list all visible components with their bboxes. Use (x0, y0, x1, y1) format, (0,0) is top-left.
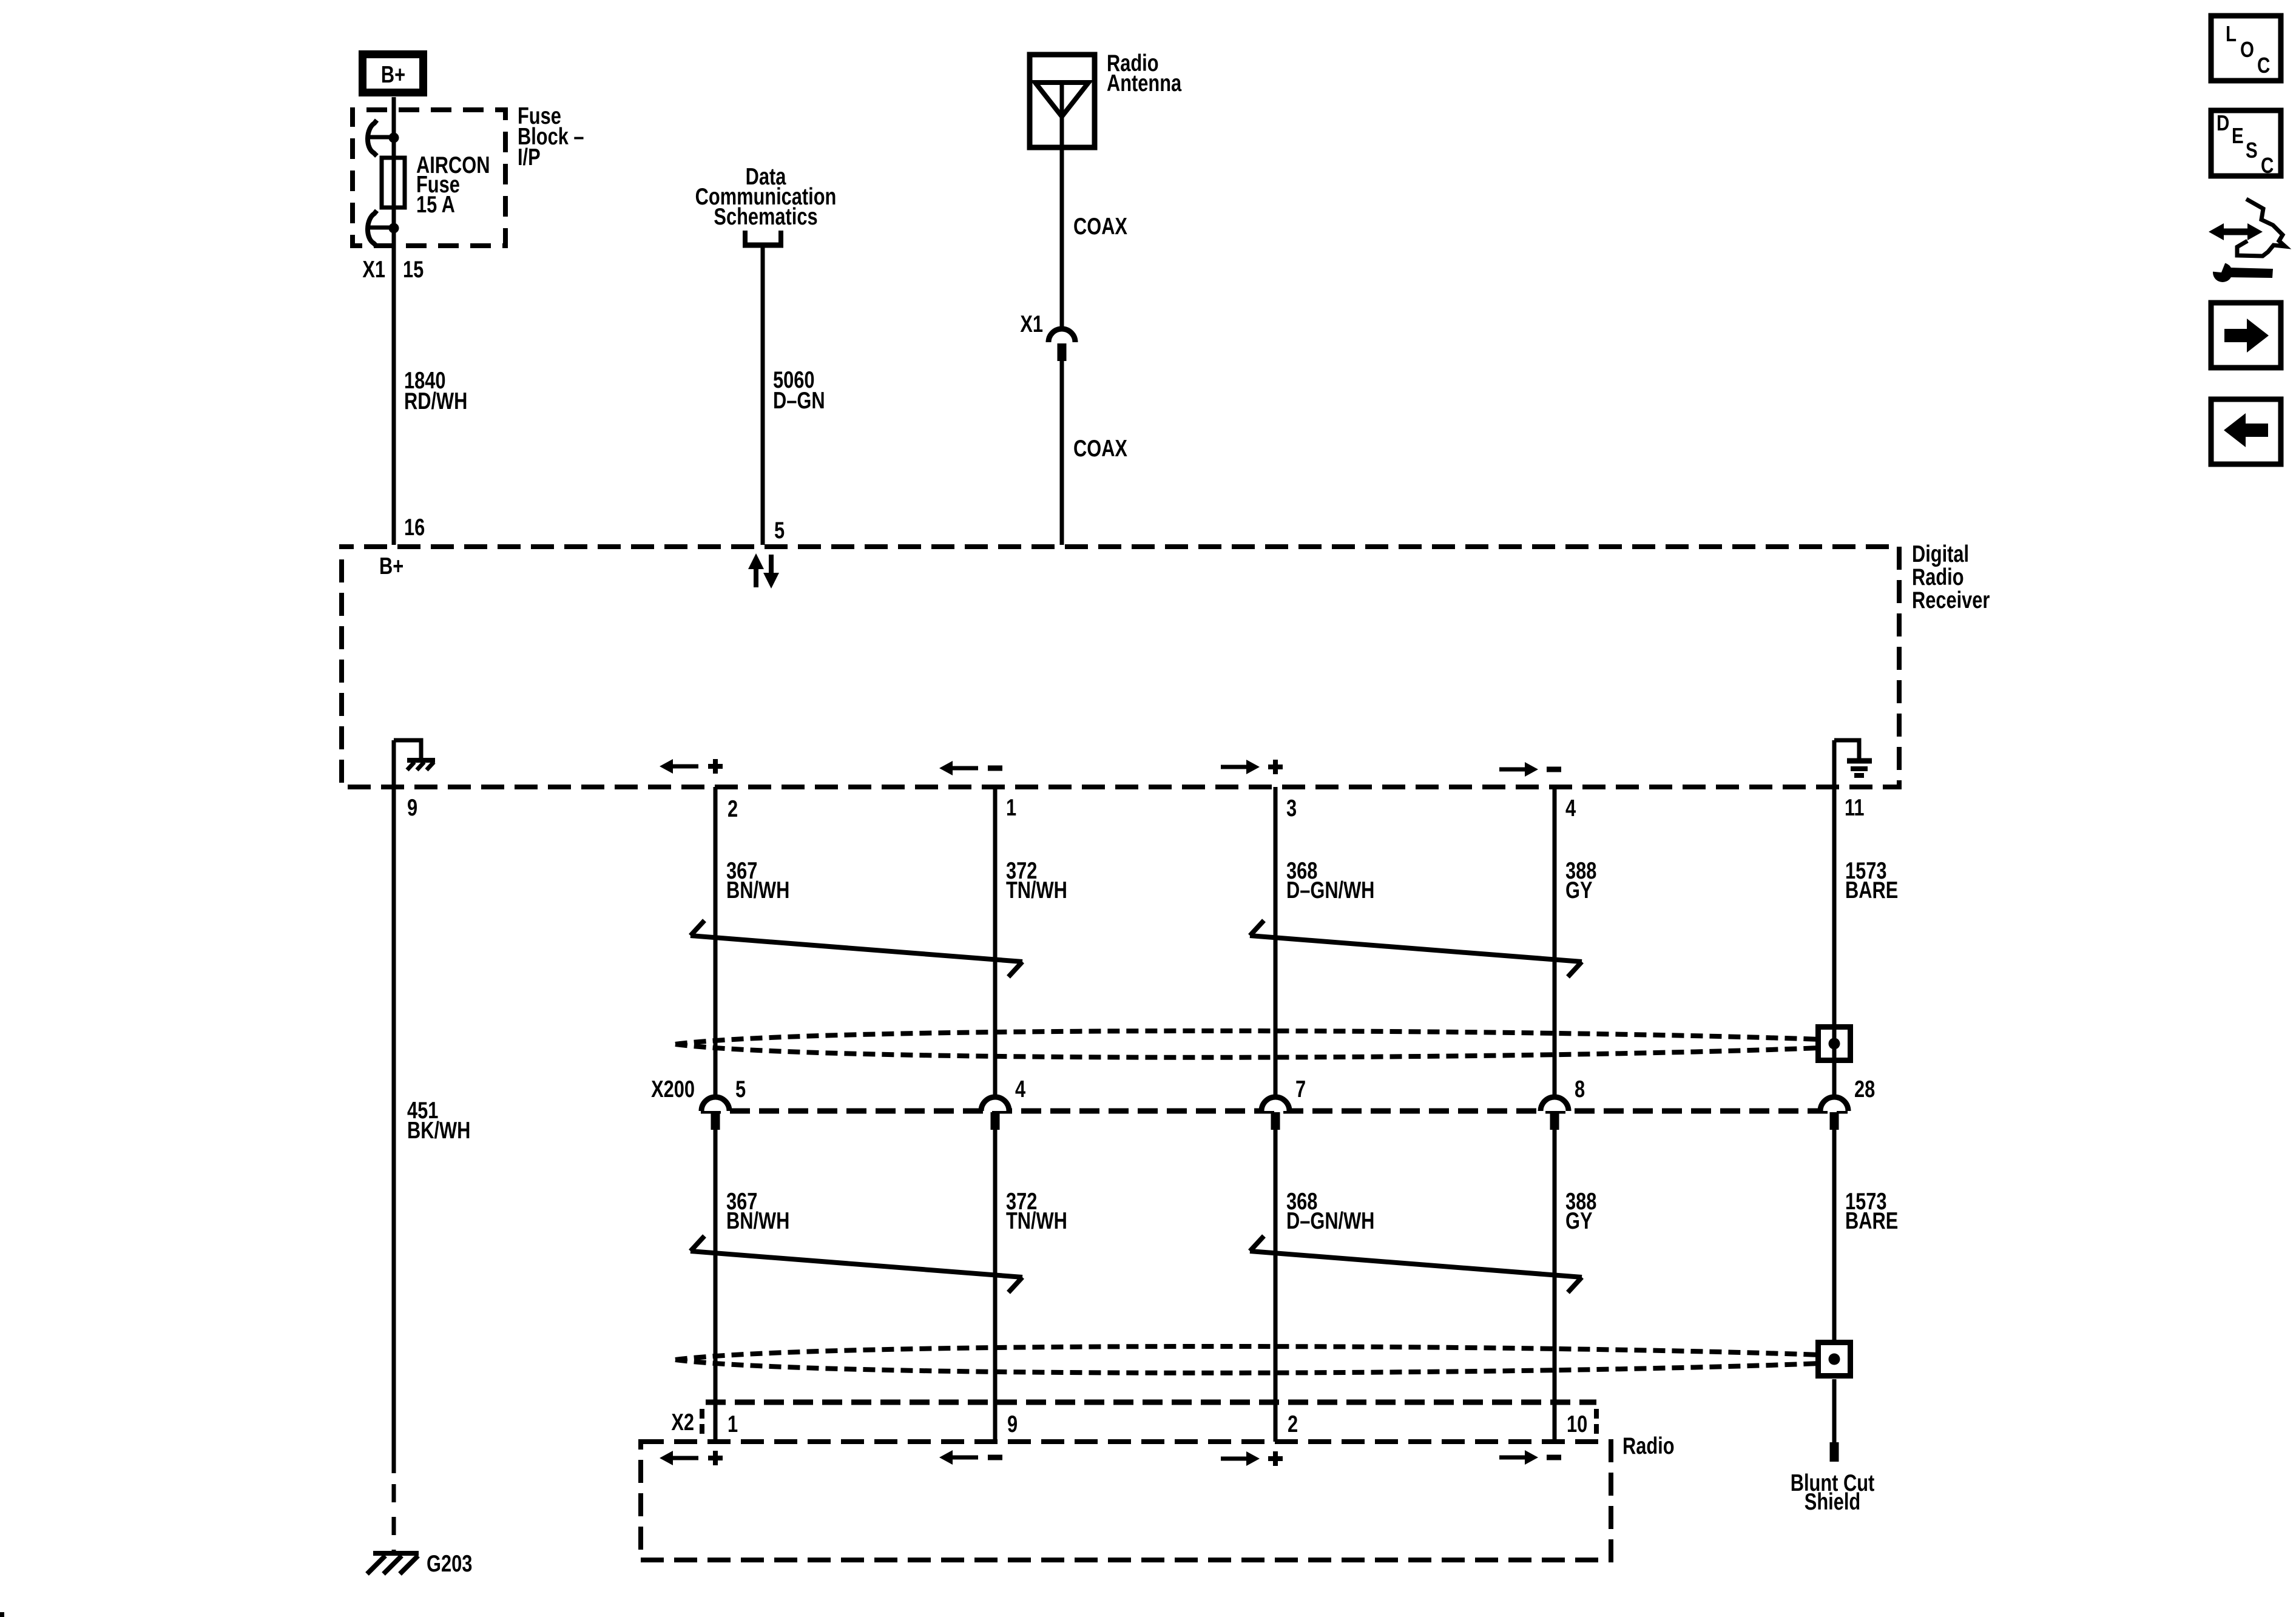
wrench part of icon (2213, 263, 2232, 282)
wire 368 D-GN/WH receiver to X200 (1274, 787, 1278, 1097)
svg-text:I/P: I/P (518, 144, 541, 170)
icon diagnostic double arrow with part outline and wrench (2223, 229, 2249, 235)
svg-text:1: 1 (728, 1411, 738, 1437)
radio antenna box (1030, 55, 1095, 147)
svg-text:Radio: Radio (1622, 1433, 1675, 1459)
wire 368 D-GN/WH X200 to radio (1274, 1130, 1278, 1442)
svg-text:D: D (2217, 110, 2229, 135)
twisted pair symbol wires 367/372 (upper) (690, 936, 1022, 962)
svg-text:2: 2 (1288, 1411, 1298, 1437)
radio left + arrow at pin 1 (672, 1456, 698, 1460)
coax wire antenna to receiver (1060, 150, 1064, 329)
shield termination box (lower) (1818, 1343, 1851, 1376)
wire 1573 BARE receiver to X200 (1832, 740, 1837, 1097)
wire 367 BN/WH X200 to radio (714, 1130, 718, 1442)
svg-text:COAX: COAX (1073, 436, 1127, 462)
svg-text:C: C (2261, 153, 2274, 177)
icon LOC box (2211, 16, 2281, 81)
wire 372 TN/WH receiver to X200 (993, 787, 998, 1097)
svg-text:GY: GY (1565, 1208, 1592, 1234)
ground symbol (earth) inside receiver at pin 11 (1834, 740, 1859, 759)
ground symbol inside receiver at pin 9 (394, 740, 421, 759)
wire 372 TN/WH X200 to radio (993, 1130, 998, 1442)
node B+ battery feed box (363, 55, 424, 93)
svg-text:G203: G203 (427, 1551, 472, 1577)
svg-text:TN/WH: TN/WH (1006, 1208, 1067, 1234)
shield drain loop (upper) (675, 1031, 1820, 1044)
svg-text:7: 7 (1295, 1076, 1306, 1102)
svg-text:Radio: Radio (1912, 564, 1964, 590)
connector X200 pin 8 (1541, 1097, 1568, 1111)
off-page connector symbol (743, 231, 748, 244)
connector X200 pin 4 (981, 1097, 1009, 1111)
right audio - arrow at pin 4 (1499, 768, 1526, 772)
svg-text:4: 4 (1015, 1076, 1026, 1102)
svg-text:8: 8 (1575, 1076, 1585, 1102)
svg-text:15: 15 (403, 257, 424, 283)
svg-text:Digital: Digital (1912, 541, 1969, 567)
Radio dashed box (641, 1442, 1611, 1560)
radio right + arrow at pin 2 (1221, 1457, 1248, 1461)
svg-text:Receiver: Receiver (1912, 587, 1990, 613)
twisted pair symbol wires 368/388 (lower) (1250, 1251, 1582, 1277)
svg-text:Shield: Shield (1805, 1489, 1860, 1515)
svg-text:D–GN/WH: D–GN/WH (1286, 877, 1374, 903)
svg-text:5: 5 (735, 1076, 746, 1102)
connector X200 pin 28 (1820, 1097, 1848, 1111)
wire 388 GY X200 to radio (1553, 1130, 1557, 1442)
svg-text:BN/WH: BN/WH (726, 1208, 789, 1234)
svg-text:3: 3 (1286, 795, 1297, 822)
wire 1840 RD/WH from B+ through fuse to receiver pin 16 (392, 97, 396, 545)
twisted pair symbol wires 367/372 (lower) (690, 1251, 1022, 1277)
connector X200 dashed line (701, 1109, 1848, 1114)
icon back arrow box (2211, 399, 2281, 464)
svg-text:X2: X2 (671, 1409, 694, 1436)
wire 388 GY receiver to X200 (1553, 787, 1557, 1097)
svg-text:2: 2 (728, 796, 738, 822)
svg-text:GY: GY (1565, 877, 1592, 903)
svg-text:9: 9 (1007, 1411, 1018, 1437)
svg-text:E: E (2232, 123, 2244, 147)
wire 1573 BARE to blunt cut (1832, 1379, 1837, 1442)
Digital Radio Receiver dashed box (342, 547, 1899, 787)
right audio + arrow at pin 3 (1221, 765, 1248, 769)
connector X200 pin 5 (701, 1097, 729, 1111)
svg-text:5: 5 (774, 518, 785, 544)
svg-text:16: 16 (404, 515, 425, 541)
icon DESC box (2211, 110, 2281, 176)
wire 367 BN/WH receiver to X200 (714, 787, 718, 1097)
svg-text:4: 4 (1565, 795, 1576, 822)
svg-text:Schematics: Schematics (714, 204, 817, 230)
wire 1573 BARE X200 to radio (1832, 1130, 1837, 1341)
wire 5060 D-GN to receiver pin 5 (761, 245, 765, 545)
svg-text:Antenna: Antenna (1107, 70, 1182, 96)
shield drain loop (lower) (675, 1346, 1820, 1360)
svg-text:TN/WH: TN/WH (1006, 877, 1067, 903)
left audio - arrow at pin 1 (951, 766, 978, 771)
svg-text:C: C (2257, 53, 2270, 77)
connector X200 pin 7 (1261, 1097, 1289, 1111)
svg-text:X200: X200 (651, 1076, 695, 1102)
svg-text:BARE: BARE (1845, 877, 1898, 903)
serial data up/down arrows at pin 5 (754, 565, 758, 587)
svg-text:B+: B+ (379, 553, 403, 579)
fuse AIRCON 15 A (382, 158, 405, 208)
fuse block I/P dashed enclosure (353, 110, 505, 246)
terminal clip upper (fuse block input) (389, 133, 399, 143)
blunt cut shield end (1830, 1442, 1839, 1462)
left audio + arrow at pin 2 (672, 765, 698, 769)
svg-text:L: L (2226, 21, 2237, 46)
shield termination box (upper) (1818, 1027, 1851, 1061)
twisted pair symbol wires 368/388 (upper) (1250, 936, 1582, 962)
svg-text:15 A: 15 A (416, 192, 455, 218)
radio right - arrow at pin 10 (1499, 1456, 1526, 1460)
svg-text:O: O (2240, 37, 2254, 61)
svg-text:BARE: BARE (1845, 1208, 1898, 1234)
svg-text:D–GN/WH: D–GN/WH (1286, 1208, 1374, 1234)
radio left - arrow at pin 9 (951, 1456, 978, 1460)
svg-text:BN/WH: BN/WH (726, 877, 789, 903)
antenna symbol (1035, 83, 1089, 116)
svg-text:28: 28 (1854, 1076, 1875, 1102)
svg-text:11: 11 (1845, 795, 1865, 821)
page corner mark (0, 1612, 4, 1617)
svg-text:10: 10 (1567, 1411, 1587, 1437)
svg-text:BK/WH: BK/WH (407, 1118, 470, 1144)
wire 451 BK/WH receiver pin 9 to G203 (392, 740, 396, 1473)
icon forward arrow box (2211, 303, 2281, 368)
svg-text:1: 1 (1006, 795, 1016, 821)
svg-text:B+: B+ (381, 62, 405, 88)
connector X2 dashed line (706, 1400, 1596, 1405)
svg-text:9: 9 (407, 795, 417, 821)
svg-text:S: S (2246, 138, 2258, 162)
terminal clip lower (fuse block output) (389, 223, 399, 234)
svg-text:X1: X1 (1020, 311, 1043, 337)
svg-text:X1: X1 (362, 257, 385, 283)
svg-text:COAX: COAX (1073, 214, 1127, 240)
svg-text:D–GN: D–GN (773, 388, 825, 414)
svg-text:RD/WH: RD/WH (404, 388, 467, 414)
ground G203 (373, 1551, 419, 1556)
